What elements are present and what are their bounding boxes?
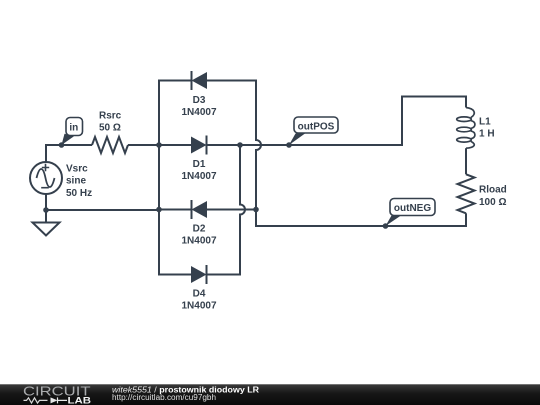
junction dot at (240,145)	[237, 142, 243, 148]
junction dot at (256,209.5)	[253, 207, 259, 213]
wire: D2 right to node x256	[207, 209, 256, 211]
resistor Rsrc	[92, 137, 128, 153]
svg-text:1N4007: 1N4007	[181, 107, 216, 118]
svg-text:http://circuitlab.com/cu97gbh: http://circuitlab.com/cu97gbh	[112, 393, 216, 402]
resistor Rload	[458, 174, 475, 213]
svg-text:D2: D2	[193, 224, 206, 235]
junction dot at in	[59, 142, 65, 148]
svg-text:Vsrc: Vsrc	[66, 164, 88, 175]
diode D2	[192, 200, 208, 219]
svg-text:1 H: 1 H	[479, 129, 495, 140]
junction dot at (159,209.5)	[156, 207, 162, 213]
junction dot at (46,210)	[43, 207, 49, 213]
svg-text:1N4007: 1N4007	[181, 236, 216, 247]
svg-text:LAB: LAB	[68, 395, 92, 405]
wire: source top to Rsrc left	[46, 145, 92, 162]
svg-text:in: in	[69, 123, 78, 134]
net flag outPOS	[289, 117, 338, 145]
svg-text:Rsrc: Rsrc	[99, 110, 122, 121]
ground	[33, 223, 60, 236]
junction dot at (159,145)	[156, 142, 162, 148]
svg-text:L1: L1	[479, 117, 491, 128]
footer bar	[0, 384, 540, 405]
wire: vertical x240 from middle wire with hop over D2 wire to D4 bar	[207, 145, 246, 275]
junction dot at outNEG	[383, 223, 389, 229]
svg-text:Rload: Rload	[479, 185, 507, 196]
wire: source bottom to ground	[45, 194, 47, 223]
diode D4	[191, 265, 207, 284]
net flag in	[62, 118, 83, 146]
net flag outNEG	[386, 199, 436, 227]
svg-text:100 Ω: 100 Ω	[479, 197, 506, 208]
svg-text:D4: D4	[193, 289, 206, 300]
svg-text:50 Ω: 50 Ω	[99, 122, 121, 133]
logo diode	[51, 397, 68, 403]
inductor L1	[457, 108, 475, 149]
wire: L1 bottom to Rload top	[465, 148, 467, 174]
wire: Rsrc right to node at x159 through D1 anode	[128, 144, 191, 146]
svg-text:outPOS: outPOS	[298, 121, 335, 132]
diode D1	[191, 136, 207, 155]
svg-text:50 Hz: 50 Hz	[66, 188, 92, 199]
svg-text:outNEG: outNEG	[394, 203, 431, 214]
voltage source Vsrc	[30, 162, 62, 194]
wire: left vertical bus x159 from D3 wire to D4 wire	[159, 81, 192, 275]
wire: D3 right corner down x256 with hop over middle wire	[207, 81, 261, 210]
svg-text:D1: D1	[193, 159, 206, 170]
svg-text:1N4007: 1N4007	[181, 301, 216, 312]
wire: Rload bottom, outNEG run, up to node at (256,209.5)	[256, 210, 466, 227]
wire: bottom source wire to x159 bus	[46, 209, 159, 211]
wire: D1 cathode to outPOS run, up and over to L1 top	[207, 97, 467, 146]
logo resistor zigzag	[24, 398, 48, 403]
diode D3	[192, 71, 208, 90]
wire: D2 left to node x159	[159, 209, 192, 211]
svg-text:sine: sine	[66, 176, 86, 187]
svg-text:1N4007: 1N4007	[181, 171, 216, 182]
svg-text:D3: D3	[193, 95, 206, 106]
junction dot at outPOS	[286, 142, 292, 148]
